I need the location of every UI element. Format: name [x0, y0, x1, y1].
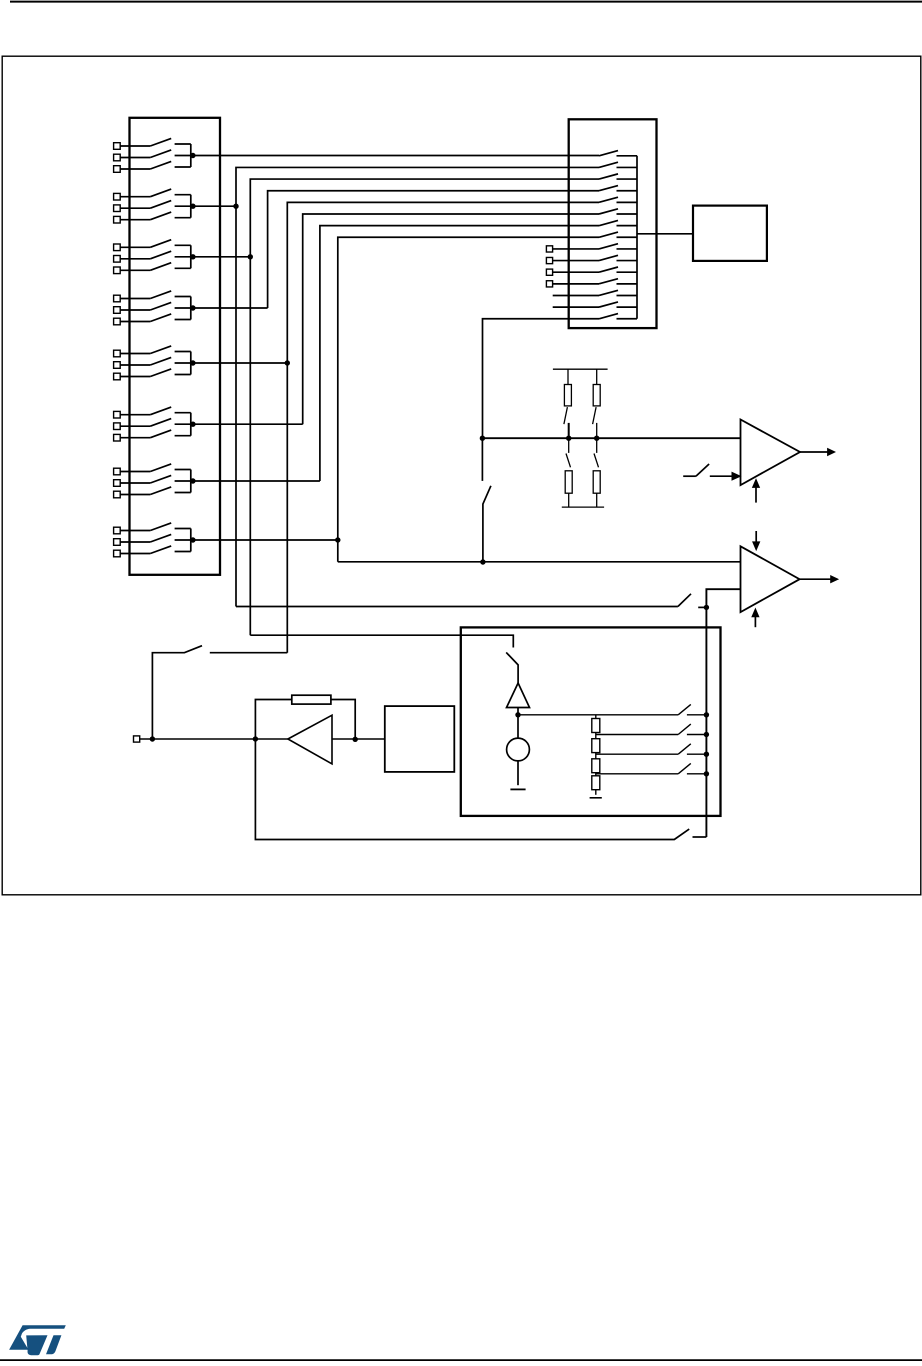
switch group G6 (3 I/O pads + switches + common bracket)	[114, 407, 196, 441]
node reference tap row 2	[704, 732, 709, 737]
ST logo	[9, 1325, 66, 1355]
mux switch row 10	[599, 255, 637, 260]
switch group G2 (3 I/O pads + switches + common bracket)	[114, 189, 196, 223]
COMP1 enable arrow (up)	[753, 479, 760, 502]
node G8 junction	[335, 537, 340, 542]
wire COMP2 plus input and vertical to reference ladder bus	[706, 589, 740, 837]
mux switch row 11	[599, 267, 637, 272]
current source	[507, 738, 530, 761]
node reference tap row 1	[704, 712, 709, 717]
mux switch row 13	[599, 290, 637, 295]
comparator COMP2	[741, 546, 800, 612]
mux switch row 1	[599, 151, 637, 156]
pull-up resistor and switch column A	[564, 369, 572, 438]
pull network bottom rail	[562, 506, 604, 508]
wire G8 net to COMP2 minus input	[338, 561, 741, 563]
wire G4 elbow to mux row 4	[268, 191, 599, 308]
node pull column B on comparator bus	[594, 436, 599, 441]
wire G3 net into reference block with switch	[250, 635, 518, 683]
wire G3 output	[191, 256, 251, 258]
reference buffer (triangle)	[507, 683, 530, 708]
pull-down switch and resistor column B	[593, 438, 600, 507]
mux switch row 6	[599, 209, 637, 214]
mux switch row 14	[599, 302, 637, 307]
switch group G7 (3 I/O pads + switches + common bracket)	[114, 464, 196, 498]
reference tap switch row 2	[596, 724, 707, 734]
resistor ladder R2	[592, 733, 600, 753]
pull-down switch and resistor column A	[565, 438, 572, 507]
wire G6 elbow to mux row 6	[303, 214, 599, 424]
resistor ladder R4	[592, 773, 600, 790]
comparator COMP1	[741, 420, 801, 486]
reference tap switch row 1	[518, 704, 706, 714]
wire G7 elbow to mux row 7	[320, 226, 599, 481]
switch DAC output to G5 net	[152, 646, 287, 739]
wire G4 output	[191, 307, 268, 309]
switch group G5 (3 I/O pads + switches + common bracket)	[114, 346, 196, 380]
node op-amp output	[253, 736, 258, 741]
mux switch row 8	[599, 232, 637, 237]
wire G2 output	[191, 205, 236, 207]
wire DAC output line	[140, 738, 288, 740]
mux switch row 2	[599, 162, 637, 167]
switch group G4 (3 I/O pads + switches + common bracket)	[114, 291, 196, 325]
DAC block	[385, 706, 455, 772]
mux input pad row 11	[546, 269, 599, 275]
node reference tap row 4	[704, 771, 709, 776]
COMP2 clock arrow (down)	[753, 531, 760, 550]
mux switch row 5	[599, 197, 637, 202]
wire G6 output	[191, 423, 303, 425]
node COMP2 plus junction	[704, 605, 709, 610]
wire G5 elbow to mux row 5	[287, 202, 599, 652]
wire G1 output to mux row 1	[191, 155, 599, 157]
node feedback right leg	[353, 737, 358, 742]
wire COMP2 output with arrowhead	[800, 576, 838, 583]
mux switch row 3	[599, 174, 637, 179]
ADC block	[693, 206, 767, 261]
switch group G1 (3 I/O pads + switches + common bracket)	[114, 138, 196, 172]
I/O switch matrix block	[130, 118, 221, 575]
mux switch row 9	[599, 244, 637, 249]
wire mux output to ADC block	[637, 233, 693, 235]
wire G2 elbow to mux row 2	[236, 167, 599, 606]
node reference tap row 3	[704, 752, 709, 757]
node comparator bus left end	[480, 436, 485, 441]
reference tap switch row 3	[596, 744, 707, 754]
node buffer output	[515, 712, 520, 717]
mux switch row 4	[599, 186, 637, 191]
reference switch to COMP2 minus net	[482, 438, 491, 562]
switch on COMP2 plus net	[236, 594, 706, 608]
mux input pad row 12	[546, 281, 599, 287]
node on COMP2 minus net	[480, 559, 485, 564]
reference generator block	[461, 627, 721, 816]
wire G7 output	[191, 480, 320, 482]
ground (resistor ladder)	[590, 790, 602, 798]
node G2 junction	[233, 204, 238, 209]
ground (current source)	[510, 761, 525, 790]
wire mux row 14 input stub	[553, 306, 599, 308]
analog multiplexer block	[569, 119, 657, 328]
wire mux row 15 input from comparator bus	[483, 319, 600, 438]
wire comparator 1 input bus	[482, 437, 741, 439]
switch group G8 (3 I/O pads + switches + common bracket)	[114, 523, 196, 557]
COMP2 enable arrow (up)	[752, 609, 759, 627]
wire op-amp input from DAC block	[332, 738, 385, 740]
wire COMP1 output with arrowhead	[800, 449, 835, 456]
mux common output bus	[636, 156, 638, 319]
mux switch row 12	[599, 279, 637, 284]
wire mux row 13 input stub	[553, 294, 599, 296]
reference tap switch row 4	[596, 763, 707, 773]
op-amp buffer (triangle, output left)	[288, 715, 332, 764]
mux input pad row 9	[546, 246, 599, 252]
feedback resistor	[255, 695, 355, 739]
pull-up resistor and switch column B	[593, 369, 601, 438]
mux switch row 15	[599, 314, 637, 319]
switch group G3 (3 I/O pads + switches + common bracket)	[114, 240, 196, 274]
mux switch row 7	[599, 220, 637, 225]
wire G8 elbow to mux row 8	[338, 237, 599, 562]
wire G3 elbow to mux row 3	[250, 179, 599, 635]
node pull column A on comparator bus	[566, 436, 571, 441]
resistor ladder R3	[592, 753, 600, 773]
mux input pad row 10	[546, 257, 599, 263]
node G5 junction	[285, 360, 290, 365]
wire feedback to reference ladder bus with switch	[255, 739, 706, 840]
wire COMP1 aux input switch and arrow	[683, 464, 740, 480]
wire G8 output	[191, 539, 338, 541]
wire G5 output	[191, 362, 287, 364]
DAC output pad	[134, 736, 140, 742]
node G3 junction	[248, 254, 253, 259]
node pad to switch riser	[150, 736, 155, 741]
pull network top rail	[553, 368, 608, 370]
resistor ladder R1	[592, 715, 600, 733]
